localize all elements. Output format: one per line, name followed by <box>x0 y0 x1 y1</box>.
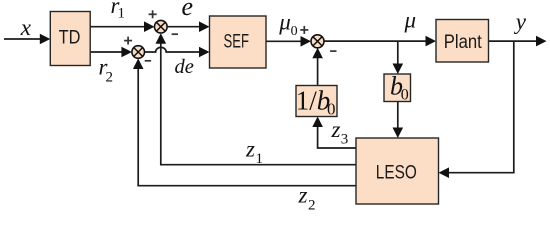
svg-text:y: y <box>514 9 527 34</box>
svg-text:μ: μ <box>278 10 291 35</box>
svg-text:z: z <box>245 137 255 162</box>
svg-text:z: z <box>298 182 308 207</box>
svg-text:1/b: 1/b <box>296 86 331 116</box>
svg-text:z: z <box>331 117 341 142</box>
svg-text:de: de <box>175 56 194 78</box>
svg-text:3: 3 <box>341 132 349 148</box>
svg-text:1: 1 <box>256 151 264 167</box>
svg-text:2: 2 <box>106 69 114 85</box>
svg-text:SEF: SEF <box>224 32 250 53</box>
svg-text:1: 1 <box>118 5 126 21</box>
svg-text:0: 0 <box>401 87 409 104</box>
svg-text:Plant: Plant <box>444 32 483 53</box>
svg-text:LESO: LESO <box>376 162 417 183</box>
svg-text:x: x <box>20 15 32 40</box>
svg-text:0: 0 <box>327 99 336 118</box>
svg-text:TD: TD <box>59 27 81 48</box>
svg-text:2: 2 <box>308 197 316 213</box>
svg-text:e: e <box>182 0 194 21</box>
svg-text:0: 0 <box>291 24 298 39</box>
svg-text:μ: μ <box>404 8 417 33</box>
